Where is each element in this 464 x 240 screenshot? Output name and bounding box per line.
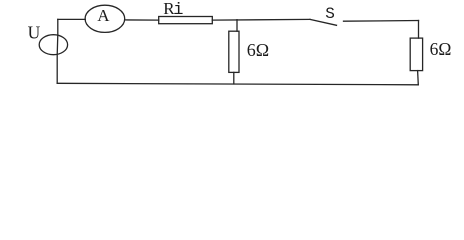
- wire below right resistor: [417, 71, 420, 85]
- wire top-left corner to ammeter: [58, 18, 86, 20]
- wire middle junction drop: [236, 20, 238, 32]
- wire ammeter to resistor Ri: [125, 19, 159, 21]
- resistor Ri: [159, 17, 213, 24]
- resistor R3 (right 6 ohm): [410, 38, 422, 71]
- wire right vertical drop: [418, 21, 420, 39]
- resistor R2 (middle 6 ohm): [229, 31, 239, 72]
- wire switch to top-right corner: [344, 20, 419, 23]
- wire resistor Ri to switch S: [212, 18, 310, 21]
- svg-text:6Ω: 6Ω: [430, 39, 452, 59]
- wire below middle resistor: [233, 72, 235, 84]
- svg-text:i: i: [173, 1, 183, 20]
- wire bottom rail: [57, 83, 418, 85]
- svg-text:S: S: [325, 5, 335, 23]
- voltage source U: [39, 35, 67, 55]
- svg-text:6Ω: 6Ω: [247, 40, 269, 60]
- wire left vertical branch: [56, 19, 59, 83]
- svg-text:U: U: [28, 22, 41, 42]
- ammeter U1: [85, 5, 125, 32]
- wire switch blade: [310, 19, 337, 25]
- svg-text:A: A: [97, 6, 110, 25]
